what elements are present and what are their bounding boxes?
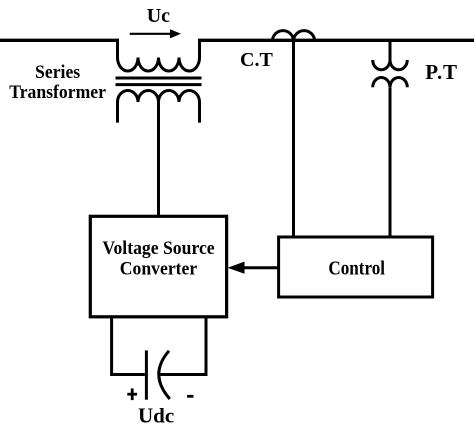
potential transformer P.T primary winding — [373, 60, 408, 70]
transformer T1 core — [116, 78, 202, 85]
svg-text:Series: Series — [35, 61, 80, 82]
transformer T1 secondary winding — [118, 91, 200, 123]
wire: main bus left segment — [0, 39, 119, 42]
current transformer C.T winding — [272, 31, 314, 41]
wire: secondary center tap to VSC — [157, 102, 160, 216]
block: Control U2 — [279, 237, 433, 297]
capacitor Udc positive plate — [145, 350, 148, 399]
label - — [187, 395, 193, 398]
svg-text:Converter: Converter — [120, 258, 197, 279]
capacitor Udc negative plate — [159, 351, 170, 399]
label Series Transformer — [9, 61, 106, 102]
svg-text:Transformer: Transformer — [9, 81, 106, 102]
wire: VSC left leg to DC link — [112, 317, 145, 375]
label + — [127, 388, 137, 400]
arrow: Control to VSC — [228, 262, 279, 274]
wire: C.T to Control — [292, 41, 295, 237]
svg-text:Voltage Source: Voltage Source — [102, 237, 214, 258]
svg-text:Control: Control — [328, 257, 385, 280]
wire: P.T to Control — [389, 87, 392, 237]
svg-text:P.T: P.T — [425, 60, 458, 84]
potential transformer P.T secondary winding — [373, 78, 408, 88]
arrow Uc direction — [130, 29, 181, 38]
svg-text:Udc: Udc — [138, 404, 174, 428]
wire: main bus right segment — [198, 39, 474, 42]
transformer T1 primary winding — [118, 39, 200, 71]
svg-text:Uc: Uc — [147, 5, 170, 27]
wire: bus tap to P.T — [389, 41, 392, 61]
block: Voltage Source Converter U1 — [90, 216, 226, 316]
wire: VSC right leg to DC link — [160, 317, 206, 375]
svg-text:C.T: C.T — [240, 49, 273, 71]
label Voltage Source Converter — [102, 237, 214, 278]
